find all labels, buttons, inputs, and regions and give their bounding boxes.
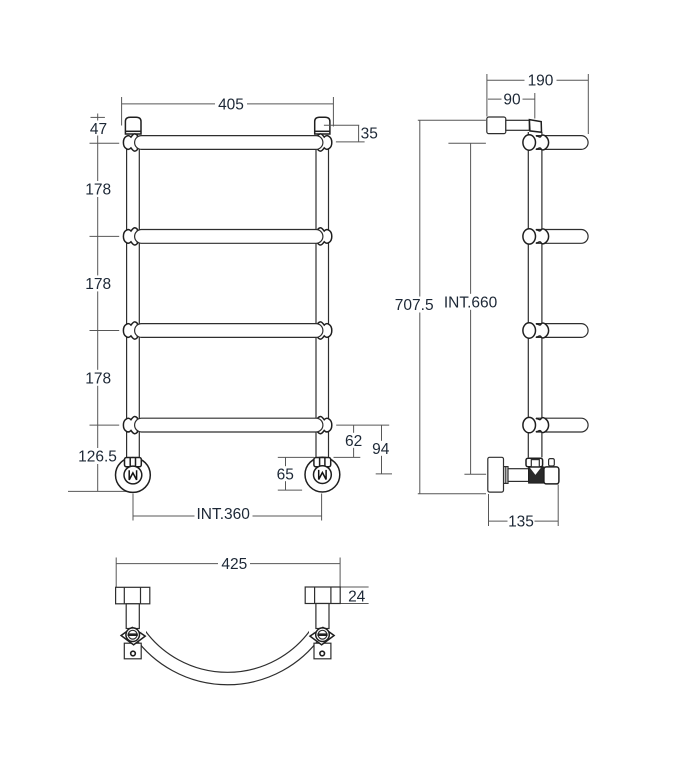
dim 94 vline: [381, 425, 383, 474]
svg-text:62: 62: [345, 433, 362, 450]
right clamp diamond: [310, 627, 334, 644]
svg-text:178: 178: [85, 276, 111, 293]
side valve: wall plate: [488, 457, 504, 492]
dim INT.660 top tick: [448, 142, 486, 144]
dim 47 vertical line: [97, 114, 99, 144]
svg-text:94: 94: [372, 441, 390, 458]
dim 178 b line: [97, 236, 99, 330]
dim 425 ext left: [115, 558, 117, 588]
svg-text:190: 190: [528, 73, 554, 90]
joint L1: [123, 134, 137, 151]
dim 135 ext left: [488, 494, 490, 526]
side valve: right knob: [544, 467, 559, 484]
right valve nut: [314, 458, 331, 467]
dim 47 top tick: [91, 116, 105, 118]
left wall plate (top view): [116, 587, 150, 604]
left valve inner circle: [124, 466, 142, 484]
wall plate top bracket: [487, 117, 506, 134]
joint R4: [318, 416, 332, 433]
joint L4: [123, 416, 137, 433]
right top cap: [315, 117, 330, 134]
dim 425 line: [116, 563, 340, 565]
dim 65 vline: [285, 457, 287, 490]
left valve body circle: [115, 458, 150, 493]
svg-text:178: 178: [85, 370, 111, 387]
side fitting 3: [536, 323, 549, 338]
dim 707.5 bottom tick: [418, 493, 486, 495]
side fitting 1: [536, 135, 549, 150]
svg-text:47: 47: [90, 121, 107, 138]
rung 1 tube: [135, 136, 323, 150]
dim 65 top leader: [278, 456, 314, 458]
left clamp diamond: [121, 627, 145, 644]
side rung stub 3: [536, 324, 588, 338]
svg-text:405: 405: [218, 96, 244, 113]
left post segment 1: [127, 149, 140, 231]
joint R3: [318, 322, 332, 339]
dim 65 bottom leader: [278, 489, 302, 491]
dim 405 label: [215, 96, 247, 112]
right screw: [316, 628, 330, 642]
svg-text:65: 65: [277, 466, 294, 483]
side valve: tee body dark: [529, 467, 544, 483]
side fitting 4: [536, 418, 549, 433]
dim 425 ext right: [339, 558, 341, 588]
dim INT.660 vline: [470, 143, 472, 474]
svg-text:INT.360: INT.360: [196, 506, 250, 523]
side rung stub 2: [536, 230, 588, 244]
dim INT.360 ext left: [132, 494, 134, 521]
dim 126.5 line: [97, 425, 99, 491]
left valve M mark: [129, 470, 136, 480]
right valve inner circle: [314, 466, 332, 484]
left post segment 4: [127, 431, 140, 458]
rung 3 tube: [135, 324, 323, 338]
side valve: nut: [526, 458, 543, 467]
joint L2: [123, 228, 137, 245]
bracket arm: [506, 120, 530, 130]
svg-text:707.5: 707.5: [395, 297, 434, 314]
dim 405 ext left: [121, 97, 123, 126]
right post segment 3: [316, 337, 329, 420]
dim 190 ext right: [587, 74, 589, 134]
dim 47 label: [89, 121, 108, 136]
dim 62 bottom leader: [334, 456, 361, 458]
dim 94 bottom leader: [376, 473, 392, 475]
side valve: collar ring: [504, 467, 508, 484]
svg-text:178: 178: [85, 182, 111, 199]
dim INT.660 bottom tick: [464, 473, 486, 475]
right valve M mark: [319, 470, 326, 480]
right post segment 1: [316, 149, 329, 231]
dim 405 ext right: [332, 97, 334, 127]
dim 135 line: [489, 520, 559, 522]
leader rung4: [90, 424, 120, 426]
dim 35 vline: [358, 125, 360, 142]
dim 35 leader upper (over cap): [324, 124, 359, 126]
left top cap: [125, 117, 141, 134]
leader rung1: [90, 142, 120, 144]
svg-text:24: 24: [348, 588, 366, 605]
side rung stub 1: [536, 136, 588, 150]
dim INT.360 line: [133, 515, 322, 517]
right valve body circle: [305, 457, 340, 492]
rung 4 tube: [135, 418, 323, 432]
left post segment 3: [127, 337, 140, 420]
left valve nut: [125, 458, 142, 467]
side fitting 2: [536, 229, 549, 244]
leader rung2: [90, 235, 120, 237]
rung 2 tube: [135, 230, 323, 244]
dim 190 line: [487, 79, 588, 81]
right pad: [314, 643, 331, 659]
joint R2: [318, 228, 332, 245]
bracket clamp: [529, 120, 541, 133]
dim 178 a line: [97, 143, 99, 236]
left stem: [126, 604, 139, 629]
dim 90 ext right: [534, 93, 536, 119]
right wall plate (top view): [305, 587, 340, 604]
dim INT.360 ext right: [321, 494, 323, 521]
leader rung3: [90, 330, 120, 332]
svg-text:135: 135: [508, 514, 534, 531]
joint L3: [123, 322, 137, 339]
side rung stub 4: [536, 418, 588, 432]
joint R1: [318, 134, 332, 151]
right post segment 4: [316, 431, 329, 458]
dim 126.5 bottom leader: [68, 490, 135, 492]
dim 135 ext right: [557, 485, 559, 527]
svg-text:126.5: 126.5: [78, 449, 117, 466]
svg-text:425: 425: [221, 556, 247, 573]
svg-text:90: 90: [503, 92, 521, 109]
left post segment 2: [127, 242, 140, 324]
svg-text:INT.660: INT.660: [444, 294, 498, 311]
dim 707.5 vline: [419, 120, 421, 494]
dim 707.5 top tick: [418, 119, 486, 121]
left pad: [124, 643, 141, 659]
dim 90 line: [488, 98, 535, 100]
dim 62 vline: [353, 425, 355, 457]
side valve: top stub: [549, 459, 555, 466]
curved tube: [128, 620, 327, 679]
vertical tube: [528, 132, 542, 457]
side valve: pipe: [508, 469, 529, 482]
dim 35 leader lower: [336, 141, 365, 143]
right stem: [316, 604, 329, 629]
dim 62 top leader: [336, 424, 389, 426]
dim 24 leader lower: [340, 603, 368, 605]
right post segment 2: [316, 242, 329, 324]
svg-text:35: 35: [361, 126, 378, 143]
left screw: [126, 628, 140, 642]
dim 178 c line: [97, 331, 99, 426]
dim 190 ext left: [486, 74, 488, 117]
dim 405 line: [122, 103, 334, 105]
dim 24 leader upper: [340, 586, 368, 588]
